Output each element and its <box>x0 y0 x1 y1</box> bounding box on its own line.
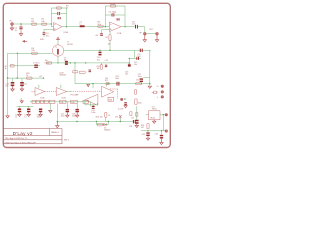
capacitor C7 electrolytic <box>34 65 38 68</box>
svg-text:R12: R12 <box>105 80 108 82</box>
wire stub x50.3 down <box>49 103 51 109</box>
node junction branch right <box>108 121 109 122</box>
wire stage2 out <box>121 26 135 28</box>
svg-text:1u 50V: 1u 50V <box>118 109 124 111</box>
node OUT pad J2 tip <box>144 32 147 35</box>
resistor R4 feedback <box>110 5 116 7</box>
node junction rail x161.5 <box>161 130 162 131</box>
potentiometer wiper symbol <box>154 91 157 94</box>
diode D1 <box>103 123 106 126</box>
ground under C23 <box>39 112 42 116</box>
capacitor C8 output <box>135 25 138 29</box>
node junction band mid <box>107 83 108 84</box>
wire second bias y65.8 <box>10 65 40 67</box>
svg-text:100n: 100n <box>72 116 76 118</box>
svg-text:78L05: 78L05 <box>150 117 155 119</box>
wire left bus vertical <box>7 53 9 115</box>
node pad 5V out <box>165 130 167 132</box>
capacitor C29 under rail <box>161 131 163 135</box>
svg-text:10n: 10n <box>134 64 137 66</box>
svg-text:C27: C27 <box>131 118 134 120</box>
svg-text:1N4148: 1N4148 <box>104 130 110 132</box>
capacitor C14 electrolytic <box>12 78 14 82</box>
svg-text:100n: 100n <box>115 78 119 80</box>
svg-text:C15: C15 <box>24 83 27 85</box>
svg-text:R9: R9 <box>105 37 107 39</box>
wire feedback1 right vertical <box>66 8 68 27</box>
node junction reg out <box>163 114 164 115</box>
wire y58.4 <box>129 57 141 59</box>
node junction stage2 out <box>124 26 125 27</box>
node junction stage1 out <box>66 26 67 27</box>
wire vertical x75 <box>74 63 76 84</box>
ground under band right <box>148 86 151 88</box>
capacitor C24 on bottom wire <box>133 120 136 123</box>
node junction bias left <box>17 53 18 54</box>
wire input y24 <box>13 24 53 27</box>
node junction band right <box>149 83 150 84</box>
resistor R17 right small <box>135 90 137 95</box>
svg-text:IC1B: IC1B <box>117 33 122 35</box>
wire vline x97.2 <box>96 103 98 105</box>
capacitor C23 <box>39 109 42 113</box>
capacitor C20 <box>76 102 78 109</box>
wire row end down <box>90 102 92 107</box>
node junction emitter row <box>70 62 71 63</box>
ground stub near title <box>56 122 59 128</box>
wire IC3 in stub <box>146 114 149 116</box>
title block <box>3 129 62 144</box>
ground under pad tip <box>143 35 146 42</box>
node OUT pad J2 sleeve <box>156 32 159 35</box>
ground mid arrow <box>87 84 90 86</box>
node junction band left <box>92 83 93 84</box>
svg-text:4558: 4558 <box>109 100 113 102</box>
resistor R1 <box>32 23 37 25</box>
wire collector rail y50.3 <box>64 49 135 51</box>
wire vline x84.9 <box>84 100 86 105</box>
svg-text:100n: 100n <box>37 117 41 119</box>
resistor R19 small vertical <box>130 112 132 116</box>
capacitor C2b <box>58 17 61 19</box>
ground under C1 <box>19 31 22 36</box>
capacitor C6 small left <box>10 65 14 67</box>
svg-text:PAGE 4: PAGE 4 <box>51 131 60 134</box>
wire stub C13 <box>128 58 130 63</box>
wire feedback1 left vertical <box>50 8 52 24</box>
dashed net segment 2 <box>110 89 118 99</box>
ground under IC3 <box>153 120 156 124</box>
wire vertical x17.3 <box>16 53 18 78</box>
node junction x57.3 <box>57 121 58 122</box>
ground under pad sleeve <box>155 35 158 42</box>
ground under J1 <box>10 25 13 30</box>
svg-text:IC2B: IC2B <box>61 97 66 99</box>
op-amp U3B mirrored <box>85 94 98 105</box>
net arrow left <box>23 40 27 42</box>
node junction near pad <box>124 98 125 99</box>
node junction bias caps <box>17 77 18 78</box>
svg-text:PT2399: PT2399 <box>71 95 79 97</box>
capacitor C27 electrolytic <box>135 120 139 124</box>
svg-text:T1: T1 <box>55 47 57 49</box>
node junction emitter <box>57 62 58 63</box>
node junction x75 row <box>74 62 75 63</box>
wire +9V riser <box>119 118 121 121</box>
wire feedback2 top <box>105 5 125 7</box>
svg-text:C28: C28 <box>141 134 144 136</box>
ground under x50.3 <box>49 111 52 113</box>
IC box DELAY <box>108 97 114 101</box>
capacitor C2 feedback <box>57 12 60 15</box>
capacitor C15 electrolytic <box>21 78 23 82</box>
wire emitter row y62.9 <box>44 62 129 64</box>
svg-text:DRW: 6/27/2010 9:18:55 PM by F: DRW: 6/27/2010 9:18:55 PM by FP <box>5 142 37 144</box>
svg-text:1M: 1M <box>31 21 34 23</box>
wire feedback1 top <box>51 7 66 9</box>
svg-text:3+: 3+ <box>157 86 159 88</box>
svg-text:1k: 1k <box>66 8 68 10</box>
ground under C26 <box>124 105 127 108</box>
wire stage1 to stage2 <box>62 26 109 28</box>
svg-text:100n: 100n <box>61 116 65 118</box>
capacitor C12 on wire <box>136 57 139 60</box>
svg-text:R14 10k: R14 10k <box>96 116 103 118</box>
svg-text:10k: 10k <box>31 50 34 52</box>
node junction x77 <box>76 121 77 122</box>
dashed net U2A to U2B <box>45 91 57 93</box>
node junction bias right <box>43 77 44 78</box>
resistor R5 input stage2 <box>98 25 103 27</box>
resistor R16 vertical right <box>135 99 137 105</box>
wire x163.3 vertical <box>162 115 164 131</box>
svg-text:1u: 1u <box>79 24 81 26</box>
node junction x96.4 <box>96 121 97 122</box>
resistor R14 on branch <box>97 123 102 126</box>
wire IC3 out stub <box>160 114 165 116</box>
svg-text:+4.5: +4.5 <box>39 76 43 78</box>
wire x134.5 down <box>134 50 136 58</box>
resistor R22 on riser <box>136 112 138 116</box>
wire x136.8 vertical <box>136 106 138 119</box>
ground left bus <box>6 116 9 118</box>
capacitor C1 <box>20 24 22 31</box>
wire bias rail left y53.3 <box>8 52 53 54</box>
capacitor C4b <box>117 18 120 20</box>
node pot pad P2 <box>161 91 163 93</box>
capacitor C17 on band <box>117 82 120 86</box>
wire feedback1 cap branch <box>51 13 66 15</box>
wire branch left vline <box>95 122 97 125</box>
capacitor C4 feedback <box>112 13 115 16</box>
op-amp U1A <box>54 23 63 32</box>
capacitor C3 bias <box>44 29 54 32</box>
wire U2A power stub <box>38 85 40 89</box>
regulator IC3 box <box>149 111 161 120</box>
power arrow above T1 <box>57 37 60 39</box>
svg-text:4k7: 4k7 <box>141 127 144 129</box>
resistor R2 <box>42 23 47 25</box>
dashed net segment 1 <box>71 90 102 92</box>
svg-text:1k: 1k <box>26 75 28 77</box>
svg-text:C4 100p: C4 100p <box>109 12 117 14</box>
wire 5V rail y130.8 <box>141 130 165 132</box>
node junction x120.3 <box>120 121 121 122</box>
capacitor C19 <box>66 102 68 109</box>
wire right column top <box>135 49 151 51</box>
ground under C20 <box>76 112 79 117</box>
wire C30 bottom stub <box>140 82 142 84</box>
svg-text:10k: 10k <box>41 21 44 23</box>
ground small mid-left <box>20 100 23 103</box>
wire feedback2 left vertical <box>104 6 106 27</box>
transistor T1 body bar <box>57 49 59 55</box>
svg-text:C7 47u: C7 47u <box>33 62 39 64</box>
capacitor C31 small marks <box>105 65 107 67</box>
resistor R6 <box>32 52 38 54</box>
resistor R10 on bias rail <box>26 77 32 79</box>
capacitor C13 left edge <box>128 64 131 66</box>
capacitor C18 small <box>89 70 92 73</box>
svg-text:10k: 10k <box>108 44 111 46</box>
resistor R18 vertical <box>147 124 149 129</box>
wire bottom y121.5 <box>57 121 133 123</box>
node junction feedback2 left <box>105 26 106 27</box>
node junction rail C10 <box>99 50 100 51</box>
wire bias rail y78.1 <box>8 77 44 79</box>
resistor R9 vertical to stage2 bias <box>109 32 111 51</box>
capacitor C26 below pad <box>124 102 127 105</box>
svg-text:20k: 20k <box>98 24 101 26</box>
node pot pad P3 <box>161 96 163 98</box>
resistor RE <box>49 100 55 103</box>
svg-text:BC549: BC549 <box>67 44 73 46</box>
wire to output node <box>138 27 145 33</box>
ground under C27 <box>135 124 138 128</box>
svg-text:1u: 1u <box>15 30 17 32</box>
wire pad to pad <box>146 33 156 35</box>
resistor R8 <box>46 62 51 64</box>
wire U2B power stub <box>60 85 62 89</box>
wire right column vertical x150.9 <box>149 50 151 85</box>
wire T1 collector up <box>57 40 59 45</box>
wire feedback2 cap branch <box>105 14 125 16</box>
wire under U3B y104.8 <box>85 104 97 106</box>
ground under C19 <box>66 112 69 117</box>
svg-text:NE5532: NE5532 <box>60 75 67 77</box>
resistor RC <box>40 100 43 103</box>
svg-text:10n: 10n <box>125 74 128 76</box>
resistor RH <box>83 100 88 103</box>
svg-text:10k: 10k <box>71 102 74 104</box>
capacitor C9 electrolytic on row <box>65 61 68 65</box>
svg-text:IC1A: IC1A <box>63 31 68 34</box>
svg-text:R4 2k: R4 2k <box>110 3 115 5</box>
svg-text:TSD: Aug-4-2009 Rev 2.1: TSD: Aug-4-2009 Rev 2.1 <box>5 137 29 140</box>
node junction rail R9 <box>109 50 110 51</box>
svg-text:1k5: 1k5 <box>136 80 139 82</box>
node junction A <box>20 23 21 24</box>
svg-text:47u: 47u <box>5 85 8 87</box>
wire feedback2 right vertical <box>124 6 126 27</box>
ground under C15 <box>20 86 23 91</box>
wire C30 top stub <box>143 77 150 79</box>
wire T1 emitter <box>57 56 59 63</box>
wire vertical x93 short <box>92 84 94 88</box>
op-amp U2A <box>35 88 45 96</box>
resistor RG <box>71 100 78 103</box>
resistor row wire <box>30 101 91 103</box>
resistor R13 small <box>79 71 85 73</box>
node pad +9V <box>165 114 167 116</box>
resistor R3 feedback <box>56 7 61 9</box>
ground under C21 <box>18 112 21 116</box>
wire branch right vline <box>107 122 109 125</box>
svg-text:C24: C24 <box>129 126 132 128</box>
svg-text:IC2A: IC2A <box>40 96 45 99</box>
capacitor C11 on wire <box>140 49 143 52</box>
dashed net into U2A <box>32 91 36 93</box>
node junction rail x148 <box>147 130 148 131</box>
power +9V symbol <box>119 115 121 118</box>
ground under C14 <box>11 86 14 91</box>
wire x57.3 vertical <box>56 103 58 121</box>
node junction x129.3 <box>129 62 130 63</box>
resistor R15 vertical <box>105 112 107 117</box>
resistor RF <box>60 100 66 103</box>
capacitor C25 vertical mid <box>92 104 94 107</box>
svg-text:SHT 4: SHT 4 <box>64 140 69 142</box>
ground under C28 <box>146 136 149 140</box>
svg-text:100n: 100n <box>91 112 95 114</box>
svg-text:1k: 1k <box>5 68 7 70</box>
op-amp U3A <box>102 86 114 97</box>
svg-text:47u: 47u <box>97 59 100 61</box>
node pad feedback <box>121 98 123 100</box>
svg-text:C15: C15 <box>105 60 108 62</box>
capacitor C5 bias stage2 <box>102 30 110 34</box>
node junction bus bias <box>7 77 8 78</box>
resistor R12 small <box>72 71 77 73</box>
capacitor C32 inter-stage <box>80 25 85 27</box>
ground under C29 <box>160 139 163 145</box>
capacitor C21 <box>19 106 21 108</box>
svg-text:10k: 10k <box>60 102 63 104</box>
svg-text:D'Lay v2: D'Lay v2 <box>13 131 33 136</box>
svg-text:10u: 10u <box>132 24 135 26</box>
transistor T1 circle <box>52 45 63 56</box>
op-amp U2B <box>56 88 66 96</box>
node IN pad J1 <box>11 23 14 26</box>
svg-text:100k: 100k <box>138 102 142 104</box>
wire top band y83.7 <box>75 83 150 85</box>
op-amp U1B <box>110 22 122 32</box>
capacitor C28 under rail <box>146 132 149 136</box>
resistor RD <box>44 100 48 103</box>
wire branch y124.6 <box>96 124 108 126</box>
svg-text:1k: 1k <box>108 115 110 117</box>
via mark on band <box>106 83 109 85</box>
svg-text:78L05: 78L05 <box>152 108 157 110</box>
node junction emitter row 2 <box>85 62 86 63</box>
svg-text:C29: C29 <box>155 134 158 136</box>
capacitor C10 electrolytic under rail <box>99 52 102 56</box>
capacitor C22 <box>28 106 30 108</box>
wire U2B out stub <box>67 91 71 93</box>
node junction y58.4 <box>129 58 130 59</box>
svg-text:1u: 1u <box>15 117 17 119</box>
resistor R11 on band <box>136 83 142 85</box>
wire U3A power stub <box>106 84 108 87</box>
resistor R20 below rail <box>101 63 103 65</box>
svg-text:1u: 1u <box>24 117 26 119</box>
node junction feedback1 left <box>51 23 52 24</box>
ground under C22 <box>27 112 30 116</box>
svg-text:47u: 47u <box>64 59 67 61</box>
svg-text:10k: 10k <box>97 68 100 70</box>
svg-text:47u: 47u <box>46 35 49 37</box>
wire caps top y106.3 <box>17 105 34 107</box>
svg-text:100u: 100u <box>138 76 142 78</box>
svg-text:10k: 10k <box>45 60 48 62</box>
resistor RA <box>32 100 35 103</box>
resistor RB <box>36 100 39 103</box>
node pot pad P1 <box>161 85 163 87</box>
capacitor C30 electrolytic 100u <box>140 78 143 82</box>
frame border <box>3 3 170 147</box>
